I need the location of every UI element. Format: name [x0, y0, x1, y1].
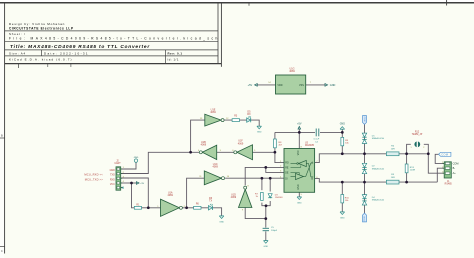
svg-text:MAX485: MAX485 — [305, 144, 315, 147]
svg-text:KiCad E.D.A. kicad (6.0.7): KiCad E.D.A. kicad (6.0.7) — [9, 57, 73, 61]
svg-text:A+: A+ — [453, 172, 457, 175]
svg-text:100pF: 100pF — [271, 230, 278, 232]
svg-text:COM: COM — [441, 153, 449, 157]
svg-text:Sheet: /: Sheet: / — [9, 32, 26, 36]
svg-text:4069: 4069 — [231, 196, 237, 199]
svg-text:B: B — [1, 134, 3, 138]
svg-text:4069: 4069 — [210, 111, 216, 114]
svg-text:GND: GND — [134, 157, 139, 159]
svg-text:GND: GND — [219, 221, 224, 223]
svg-text:COM: COM — [364, 216, 366, 221]
svg-text:DI: DI — [285, 178, 288, 180]
svg-text:TX: TX — [209, 200, 212, 203]
svg-text:1N4148: 1N4148 — [275, 197, 283, 199]
svg-text:10R: 10R — [391, 177, 395, 179]
svg-text:GND: GND — [297, 184, 300, 190]
svg-text:SMAJ6.0CA: SMAJ6.0CA — [372, 137, 384, 140]
svg-text:File: MAX485-CD4069-RS485-to-T: File: MAX485-CD4069-RS485-to-TTL-Convert… — [9, 36, 220, 40]
svg-text:SMAJ6.0CA: SMAJ6.0CA — [372, 167, 384, 170]
svg-text:GND: GND — [263, 246, 268, 248]
svg-text:VDD: VDD — [277, 84, 282, 87]
svg-text:COM: COM — [453, 162, 459, 165]
svg-text:GND: GND — [297, 202, 302, 204]
svg-text:VCC: VCC — [110, 184, 115, 186]
svg-text:TXD: TXD — [110, 175, 115, 177]
svg-text:RX: RX — [247, 113, 251, 116]
svg-text:+5V: +5V — [248, 84, 253, 87]
svg-text:RS485: RS485 — [445, 184, 453, 186]
svg-text:4069: 4069 — [289, 70, 295, 73]
svg-text:Rev: 0.1: Rev: 0.1 — [168, 52, 183, 56]
svg-text:VCC: VCC — [297, 150, 300, 155]
svg-text:GND: GND — [257, 132, 262, 134]
svg-text:+5V: +5V — [297, 122, 302, 125]
svg-text:COM: COM — [363, 117, 365, 122]
svg-text:MCU_TXD >>: MCU_TXD >> — [85, 177, 104, 181]
svg-text:GND: GND — [330, 84, 336, 87]
svg-text:Size: A4: Size: A4 — [9, 52, 26, 56]
svg-text:DE: DE — [285, 172, 289, 174]
svg-text:120R: 120R — [410, 170, 416, 172]
svg-text:Id: 1/1: Id: 1/1 — [168, 57, 179, 61]
svg-text:RO: RO — [285, 163, 289, 165]
svg-text:Title: MAX485-CD4069 RS485 to: Title: MAX485-CD4069 RS485 to TTL Conver… — [10, 44, 150, 50]
svg-text:MCU_RXD <<: MCU_RXD << — [84, 173, 103, 177]
svg-text:+5V: +5V — [140, 183, 144, 185]
svg-text:10R: 10R — [391, 148, 395, 150]
svg-text:RXD: RXD — [110, 179, 115, 181]
svg-text:1: 1 — [411, 147, 412, 149]
svg-text:TERM_JP: TERM_JP — [412, 134, 423, 136]
svg-text:GND: GND — [110, 170, 115, 172]
svg-text:4069: 4069 — [167, 194, 173, 197]
svg-text:C: C — [1, 250, 3, 253]
svg-text:CIRCUITSTATE Electronics LLP: CIRCUITSTATE Electronics LLP — [9, 27, 74, 31]
svg-text:4069: 4069 — [238, 142, 244, 145]
svg-text:Date: 2022-10-31: Date: 2022-10-31 — [44, 52, 89, 56]
svg-text:2: 2 — [423, 147, 424, 149]
svg-text:4069: 4069 — [201, 144, 207, 147]
svg-text:VSS: VSS — [299, 84, 304, 87]
svg-text:GND: GND — [340, 217, 345, 219]
svg-text:0.1uF: 0.1uF — [314, 139, 320, 141]
svg-text:GND: GND — [340, 123, 345, 125]
svg-text:SMAJ6.0CA: SMAJ6.0CA — [372, 199, 384, 202]
svg-text:B-: B- — [453, 167, 456, 170]
svg-text:4069: 4069 — [212, 166, 218, 169]
svg-text:RE: RE — [285, 167, 289, 169]
svg-text:UART: UART — [114, 162, 121, 165]
